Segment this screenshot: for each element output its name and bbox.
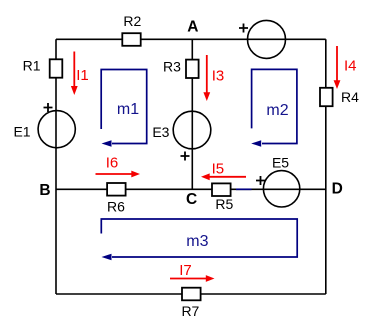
svg-text:A: A	[187, 19, 198, 36]
current arrow I4	[334, 46, 357, 89]
svg-text:I1: I1	[76, 67, 89, 84]
svg-text:C: C	[186, 191, 197, 208]
svg-text:E3: E3	[152, 124, 169, 140]
svg-text:R6: R6	[107, 198, 125, 214]
svg-text:m1: m1	[117, 101, 139, 118]
wire bottom row	[56, 293, 326, 295]
resistor R3	[163, 58, 199, 78]
resistor R1	[23, 57, 63, 77]
svg-text:E5: E5	[272, 155, 289, 171]
resistor R7	[181, 288, 200, 319]
svg-text:R2: R2	[123, 13, 141, 29]
wire segment blue R5-E5	[236, 188, 252, 190]
wire center branch A-C	[191, 39, 193, 189]
mesh loop m3	[101, 219, 297, 260]
resistor R2	[122, 13, 141, 46]
resistor R6	[107, 183, 126, 214]
svg-text:R4: R4	[341, 89, 359, 105]
svg-text:R1: R1	[23, 57, 41, 73]
mesh loop m2	[251, 69, 297, 146]
svg-text:I7: I7	[179, 262, 192, 279]
svg-text:D: D	[332, 180, 343, 197]
wire left branch	[55, 39, 57, 294]
current arrow I6	[96, 155, 141, 178]
svg-text:m2: m2	[266, 102, 288, 119]
wire top A-row	[56, 38, 326, 40]
wire right branch	[325, 39, 327, 294]
svg-text:B: B	[39, 182, 50, 199]
svg-text:I3: I3	[212, 67, 225, 84]
current arrow I1	[71, 52, 89, 96]
resistor R4	[320, 88, 359, 106]
source E3	[152, 111, 210, 160]
svg-text:R5: R5	[215, 196, 233, 212]
source E1	[13, 103, 75, 148]
svg-text:R7: R7	[181, 303, 199, 319]
svg-text:I6: I6	[106, 155, 119, 172]
svg-text:I4: I4	[344, 58, 357, 75]
wire B-D row	[56, 188, 326, 190]
svg-text:I5: I5	[212, 160, 225, 177]
current arrow I3	[203, 55, 224, 101]
current arrow I5	[201, 160, 246, 180]
current arrow I7	[170, 262, 215, 282]
mesh loop m1	[101, 70, 147, 147]
source E2 top unnamed	[239, 20, 286, 58]
svg-text:m3: m3	[186, 233, 208, 250]
resistor R5	[212, 183, 233, 212]
svg-text:R3: R3	[163, 58, 181, 74]
source E5	[256, 155, 300, 207]
svg-text:E1: E1	[13, 124, 30, 140]
